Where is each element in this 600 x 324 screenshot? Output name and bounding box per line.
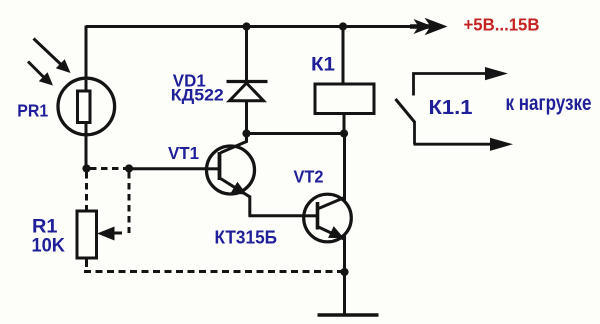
svg-text:+5В...15В: +5В...15В [464,15,540,35]
svg-text:VT1: VT1 [168,143,199,163]
wire VT1 emitter to VT2 base [248,196,305,216]
wire dashed bottom feedback line [84,270,344,273]
wire PR1 top [85,26,88,81]
svg-text:10K: 10K [32,235,66,257]
wire VT1 base line [129,167,210,170]
label к нагрузке [506,92,592,115]
node junction rail/K1 [339,22,347,30]
label КТ315Б [215,227,278,248]
wire dashed down to R1 top [85,172,88,208]
label VD1 [173,71,206,91]
ground [318,313,379,317]
contact K1.1 blade [396,99,415,122]
svg-text:КД522: КД522 [171,86,224,105]
wire relay top [342,27,345,85]
contact K1.1 upper terminal wire [414,67,509,96]
relay coil K1 [315,84,374,114]
transistor VT2 [303,194,351,242]
potentiometer R1 [77,207,97,263]
label VT2 [294,167,324,187]
svg-text:к нагрузке: к нагрузке [506,92,592,115]
photoresistor PR1 [58,78,115,135]
diode VD1 [227,27,268,134]
wire PR1 bottom [85,133,88,169]
label K1 [311,54,335,76]
node junction relay bottom [340,129,348,137]
label 10K [32,235,66,257]
transistor VT1 [207,134,255,197]
light arrow 2 into PR1 [28,62,53,86]
power arrow to +5V [410,18,448,35]
node junction base/wiper [125,164,133,172]
node junction VD1/VT1 collector [242,129,250,137]
wire dashed junction to base node [90,167,129,170]
wire dashed down to R1 wiper [128,172,131,233]
label VT1 [168,143,199,163]
wire link VD1 to relay [247,132,345,135]
svg-text:КТ315Б: КТ315Б [215,227,278,248]
label R1 [32,216,58,238]
node junction PR1/R1 [82,164,90,172]
svg-text:К1: К1 [311,54,335,76]
label КД522 [171,86,224,105]
wire dashed R1 bottom stub [85,261,88,270]
node junction rail/VD1 [242,22,250,30]
label PR1 [17,101,48,121]
R1 wiper arrow [97,227,122,241]
node junction emitter/feedback [340,268,348,276]
svg-text:VT2: VT2 [294,167,324,187]
wire VT2 collector vertical [343,134,346,316]
light arrow 1 into PR1 [34,39,71,74]
wire top supply rail [86,25,440,28]
svg-text:PR1: PR1 [17,101,48,121]
label +5В...15В [464,15,540,35]
contact K1.1 lower terminal wire [414,121,514,151]
label K1.1 [429,96,473,119]
wire relay bottom [343,113,346,134]
svg-text:К1.1: К1.1 [429,96,473,119]
